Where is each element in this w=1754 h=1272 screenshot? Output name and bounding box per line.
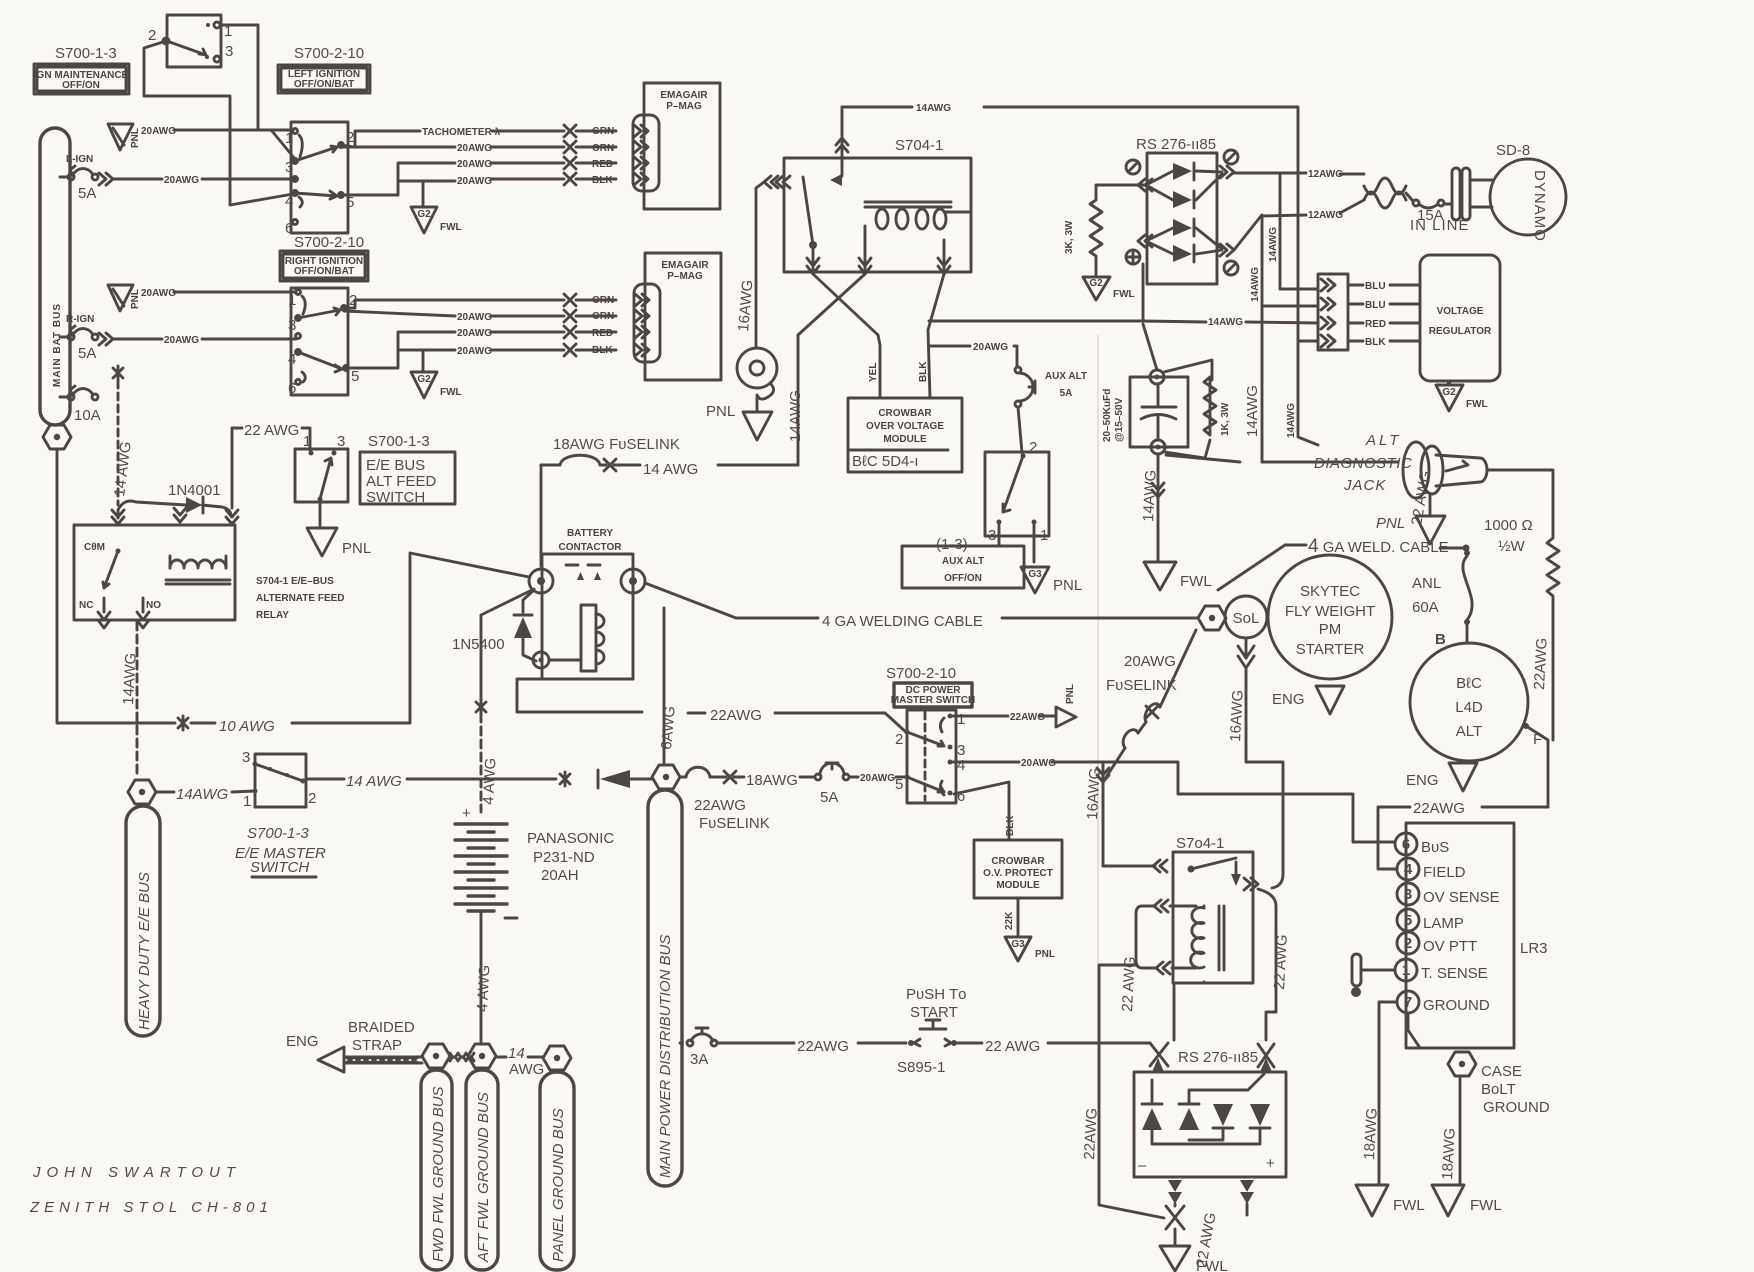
svg-text:ENG: ENG <box>1272 691 1305 708</box>
svg-text:S700-1-3: S700-1-3 <box>55 45 117 62</box>
svg-text:BℓC: BℓC <box>1456 675 1482 692</box>
svg-text:PNL: PNL <box>130 128 141 148</box>
svg-text:18AWG: 18AWG <box>1439 1127 1459 1180</box>
svg-text:3: 3 <box>225 43 233 60</box>
svg-text:4: 4 <box>957 757 965 774</box>
svg-text:BLK: BLK <box>918 361 929 382</box>
svg-text:S700-2-10: S700-2-10 <box>886 665 956 682</box>
svg-text:20AWG: 20AWG <box>457 176 492 187</box>
svg-text:4: 4 <box>285 193 293 210</box>
svg-text:OVER VOLTAGE: OVER VOLTAGE <box>866 421 944 432</box>
svg-text:20AWG: 20AWG <box>141 126 176 137</box>
svg-text:SWITCH: SWITCH <box>250 859 309 876</box>
svg-text:14AWG: 14AWG <box>1250 267 1261 302</box>
svg-text:FυSELINK: FυSELINK <box>699 815 770 832</box>
svg-text:14AWG: 14AWG <box>916 103 951 114</box>
svg-text:PNL: PNL <box>1053 577 1082 594</box>
svg-text:5A: 5A <box>78 185 96 202</box>
svg-text:½W: ½W <box>1498 538 1526 555</box>
svg-text:FWL: FWL <box>1470 1197 1502 1214</box>
svg-text:22AWG: 22AWG <box>1081 1107 1101 1160</box>
svg-text:PNL: PNL <box>1065 684 1076 704</box>
svg-text:CASE: CASE <box>1481 1063 1522 1080</box>
svg-text:MASTER SWITCH: MASTER SWITCH <box>891 695 975 706</box>
svg-text:ZENITH STOL CH-801: ZENITH STOL CH-801 <box>29 1199 273 1216</box>
svg-text:ALTERNATE FEED: ALTERNATE FEED <box>256 593 345 604</box>
svg-text:10A: 10A <box>74 407 101 424</box>
svg-text:S7ο4-1: S7ο4-1 <box>1176 835 1224 852</box>
svg-text:FWL: FWL <box>440 387 462 398</box>
svg-text:AFT FWL GROUND BUS: AFT FWL GROUND BUS <box>475 1092 492 1263</box>
svg-text:ANL: ANL <box>1412 575 1441 592</box>
svg-text:CROWBAR: CROWBAR <box>991 856 1045 867</box>
svg-text:+: + <box>462 805 471 822</box>
svg-text:22AWG: 22AWG <box>797 1038 849 1055</box>
svg-text:14AWG: 14AWG <box>1208 317 1243 328</box>
svg-text:FLY WEIGHT: FLY WEIGHT <box>1285 603 1375 620</box>
svg-text:14: 14 <box>508 1045 525 1062</box>
svg-text:OFF/ON/BAT: OFF/ON/BAT <box>294 266 354 277</box>
svg-text:BRAIDED: BRAIDED <box>348 1019 415 1036</box>
svg-text:PANEL GROUND BUS: PANEL GROUND BUS <box>550 1108 567 1262</box>
svg-text:1: 1 <box>285 130 293 147</box>
svg-text:–: – <box>1138 1157 1147 1174</box>
svg-text:4 GA WELD. CABLE: 4 GA WELD. CABLE <box>1308 536 1449 557</box>
svg-text:3K, 3W: 3K, 3W <box>1064 220 1075 254</box>
svg-text:1: 1 <box>303 433 311 450</box>
svg-text:20AWG: 20AWG <box>457 346 492 357</box>
svg-text:ORN: ORN <box>592 311 614 322</box>
svg-text:20AWG: 20AWG <box>1124 653 1176 670</box>
svg-text:CONTACTOR: CONTACTOR <box>559 542 623 553</box>
svg-text:S700-1-3: S700-1-3 <box>368 433 430 450</box>
svg-text:5: 5 <box>346 194 354 211</box>
svg-text:BLK: BLK <box>1365 337 1386 348</box>
svg-text:GRN: GRN <box>592 126 614 137</box>
svg-text:22AWG: 22AWG <box>710 707 762 724</box>
svg-text:R-IGN: R-IGN <box>66 314 94 325</box>
svg-text:3: 3 <box>288 317 296 334</box>
svg-text:S895-1: S895-1 <box>897 1059 945 1076</box>
svg-text:EMAGAIR: EMAGAIR <box>660 90 708 101</box>
svg-text:3: 3 <box>285 159 293 176</box>
svg-text:20AWG: 20AWG <box>457 159 492 170</box>
svg-text:6: 6 <box>1402 836 1410 853</box>
svg-text:20AWG: 20AWG <box>1021 758 1056 769</box>
svg-text:4: 4 <box>288 351 296 368</box>
svg-text:20AWG: 20AWG <box>457 143 492 154</box>
svg-text:22AWG: 22AWG <box>694 797 746 814</box>
svg-text:1: 1 <box>1402 962 1410 979</box>
svg-text:O.V. PROTECT: O.V. PROTECT <box>983 868 1053 879</box>
svg-text:SKYTEC: SKYTEC <box>1300 583 1360 600</box>
svg-text:RED: RED <box>592 159 613 170</box>
svg-text:LAMP: LAMP <box>1423 915 1464 932</box>
svg-text:22 AWG: 22 AWG <box>1271 934 1291 990</box>
svg-text:BLU: BLU <box>1365 281 1386 292</box>
svg-text:18AWG: 18AWG <box>1361 1107 1381 1160</box>
svg-text:FυSELINK: FυSELINK <box>1106 677 1177 694</box>
svg-text:HEAVY DUTY E/E BUS: HEAVY DUTY E/E BUS <box>136 872 153 1030</box>
svg-text:DYNAMO: DYNAMO <box>1531 170 1548 242</box>
svg-text:NC: NC <box>79 600 93 611</box>
svg-text:20AWG: 20AWG <box>141 288 176 299</box>
svg-text:GROUND: GROUND <box>1423 997 1490 1014</box>
svg-text:2: 2 <box>1404 935 1412 952</box>
svg-text:14 AWG: 14 AWG <box>346 773 402 790</box>
svg-text:PM: PM <box>1319 621 1342 638</box>
svg-text:AUX ALT: AUX ALT <box>1045 371 1087 382</box>
svg-text:2: 2 <box>148 27 156 44</box>
svg-text:BυS: BυS <box>1421 839 1449 856</box>
svg-text:SD-8: SD-8 <box>1496 142 1530 159</box>
svg-text:TACHOMETER λ: TACHOMETER λ <box>422 127 501 138</box>
svg-text:SοL: SοL <box>1233 610 1260 627</box>
svg-text:PNL: PNL <box>130 289 141 309</box>
svg-text:20AWG: 20AWG <box>164 335 199 346</box>
svg-text:LR3: LR3 <box>1520 940 1548 957</box>
svg-text:L-IGN: L-IGN <box>66 154 93 165</box>
svg-text:PυSH Tο: PυSH Tο <box>906 986 966 1003</box>
svg-text:5: 5 <box>351 368 359 385</box>
svg-text:PNL: PNL <box>1035 949 1055 960</box>
svg-text:YEL: YEL <box>868 363 879 382</box>
svg-text:FWL: FWL <box>1196 1258 1228 1272</box>
svg-text:22 AWG: 22 AWG <box>244 422 299 439</box>
svg-text:BοLT: BοLT <box>1481 1081 1516 1098</box>
svg-text:MAIN BAT BUS: MAIN BAT BUS <box>52 303 63 387</box>
svg-text:FIELD: FIELD <box>1423 864 1466 881</box>
svg-text:P231-ND: P231-ND <box>533 849 595 866</box>
svg-text:FWL: FWL <box>1113 289 1135 300</box>
svg-text:1N4001: 1N4001 <box>168 482 221 499</box>
svg-text:1000 Ω: 1000 Ω <box>1484 517 1533 534</box>
svg-text:+: + <box>1266 1155 1275 1172</box>
svg-text:22AWG: 22AWG <box>1010 712 1045 723</box>
svg-text:7: 7 <box>1404 994 1412 1011</box>
svg-text:FWD FWL GROUND BUS: FWD FWL GROUND BUS <box>430 1086 447 1262</box>
svg-text:L4D: L4D <box>1455 699 1483 716</box>
svg-text:OV PTT: OV PTT <box>1423 938 1477 955</box>
svg-text:ALT FEED: ALT FEED <box>366 473 436 490</box>
svg-text:FWL: FWL <box>440 222 462 233</box>
svg-text:S704-1 E/E–BUS: S704-1 E/E–BUS <box>256 576 334 587</box>
svg-text:G3: G3 <box>1011 939 1025 950</box>
svg-text:22AWG: 22AWG <box>1413 800 1465 817</box>
svg-text:14AWG: 14AWG <box>1268 227 1279 262</box>
svg-text:3: 3 <box>988 527 996 544</box>
svg-text:G2: G2 <box>417 209 431 220</box>
svg-text:RELAY: RELAY <box>256 610 289 621</box>
svg-text:T. SENSE: T. SENSE <box>1421 965 1488 982</box>
svg-text:AWG: AWG <box>509 1061 544 1078</box>
svg-text:AUX ALT: AUX ALT <box>942 556 984 567</box>
svg-text:G2: G2 <box>417 374 431 385</box>
svg-text:1: 1 <box>288 292 296 309</box>
svg-text:G2: G2 <box>1442 387 1456 398</box>
svg-text:14AWG: 14AWG <box>787 390 804 442</box>
svg-text:20AWG: 20AWG <box>457 312 492 323</box>
svg-text:STRAP: STRAP <box>352 1037 402 1054</box>
svg-text:BATTERY: BATTERY <box>567 528 613 539</box>
svg-text:60A: 60A <box>1412 599 1439 616</box>
svg-text:JOHN SWARTOUT: JOHN SWARTOUT <box>32 1164 241 1181</box>
svg-text:20AWG: 20AWG <box>860 773 895 784</box>
svg-text:RS 276-ıı85: RS 276-ıı85 <box>1136 136 1216 153</box>
svg-text:ALT: ALT <box>1456 723 1482 740</box>
svg-text:6: 6 <box>288 380 296 397</box>
svg-text:1: 1 <box>957 711 965 728</box>
svg-text:6: 6 <box>285 220 293 237</box>
svg-text:20–50KuFd: 20–50KuFd <box>1102 389 1113 442</box>
svg-text:14 AWG: 14 AWG <box>643 461 698 478</box>
svg-text:4: 4 <box>1404 861 1413 878</box>
svg-text:STARTER: STARTER <box>1296 641 1365 658</box>
svg-text:RED: RED <box>1365 319 1386 330</box>
svg-text:1N5400: 1N5400 <box>452 636 505 653</box>
svg-text:RED: RED <box>592 328 613 339</box>
svg-text:2: 2 <box>1029 439 1037 456</box>
svg-text:12AWG: 12AWG <box>1308 210 1343 221</box>
svg-text:2: 2 <box>308 790 316 807</box>
svg-text:5: 5 <box>1404 912 1412 929</box>
svg-text:14AWG: 14AWG <box>1286 403 1297 438</box>
svg-text:20AWG: 20AWG <box>164 175 199 186</box>
svg-text:ORN: ORN <box>592 143 614 154</box>
svg-text:BLU: BLU <box>1365 300 1386 311</box>
svg-text:GROUND: GROUND <box>1483 1099 1550 1116</box>
svg-text:B: B <box>1435 631 1446 648</box>
svg-text:OFF/ON: OFF/ON <box>62 80 100 91</box>
svg-text:ENG: ENG <box>1406 772 1439 789</box>
svg-text:E/E BUS: E/E BUS <box>366 457 425 474</box>
svg-text:14AWG: 14AWG <box>1140 469 1160 522</box>
svg-text:SWITCH: SWITCH <box>366 489 425 506</box>
svg-text:NO: NO <box>146 600 161 611</box>
svg-text:ALT: ALT <box>1365 432 1401 449</box>
svg-text:OFF/ON/BAT: OFF/ON/BAT <box>294 79 354 90</box>
svg-text:REGULATOR: REGULATOR <box>1429 326 1492 337</box>
svg-text:2: 2 <box>346 129 354 146</box>
svg-text:5: 5 <box>895 776 903 793</box>
svg-text:14AWG: 14AWG <box>176 786 229 803</box>
svg-text:20AH: 20AH <box>541 867 579 884</box>
svg-text:P–MAG: P–MAG <box>666 101 702 112</box>
svg-text:BLK: BLK <box>592 175 613 186</box>
svg-text:20AWG: 20AWG <box>973 342 1008 353</box>
svg-text:4 AWG: 4 AWG <box>480 757 499 805</box>
svg-text:EMAGAIR: EMAGAIR <box>661 260 709 271</box>
svg-text:5A: 5A <box>1060 388 1073 399</box>
svg-text:1K, 3W: 1K, 3W <box>1220 402 1231 436</box>
svg-text:PANASONIC: PANASONIC <box>527 830 614 847</box>
svg-text:FWL: FWL <box>1393 1197 1425 1214</box>
svg-text:S704-1: S704-1 <box>895 137 943 154</box>
svg-text:5A: 5A <box>78 345 96 362</box>
svg-text:G3: G3 <box>1028 569 1042 580</box>
svg-text:FWL: FWL <box>1180 573 1212 590</box>
svg-text:3: 3 <box>1404 886 1412 903</box>
svg-text:CθM: CθM <box>84 542 105 553</box>
svg-text:ORN: ORN <box>592 295 614 306</box>
svg-text:3: 3 <box>337 433 345 450</box>
svg-text:FWL: FWL <box>1466 399 1488 410</box>
svg-text:PNL: PNL <box>342 540 371 557</box>
svg-text:14AWG: 14AWG <box>1244 385 1261 437</box>
svg-text:G2: G2 <box>1089 278 1103 289</box>
svg-text:PNL: PNL <box>706 403 735 420</box>
svg-text:START: START <box>910 1004 958 1021</box>
svg-text:18AWG: 18AWG <box>746 772 798 789</box>
svg-text:MODULE: MODULE <box>883 434 927 445</box>
svg-text:18AWG FυSELINK: 18AWG FυSELINK <box>553 436 680 453</box>
svg-text:OV SENSE: OV SENSE <box>1423 889 1500 906</box>
svg-text:S700-1-3: S700-1-3 <box>247 825 309 842</box>
svg-text:S700-2-10: S700-2-10 <box>294 234 364 251</box>
svg-text:BLK: BLK <box>592 345 613 356</box>
svg-text:2: 2 <box>895 731 903 748</box>
svg-text:16AWG: 16AWG <box>1227 689 1247 742</box>
svg-text:JACK: JACK <box>1343 477 1386 494</box>
svg-text:VOLTAGE: VOLTAGE <box>1437 306 1484 317</box>
svg-text:4 GA WELDING CABLE: 4 GA WELDING CABLE <box>822 613 983 630</box>
svg-text:DIAGNOSTIC: DIAGNOSTIC <box>1314 455 1412 472</box>
svg-text:MAIN POWER DISTRIBUTION BUS: MAIN POWER DISTRIBUTION BUS <box>657 935 674 1178</box>
svg-text:PNL: PNL <box>1376 515 1405 532</box>
svg-text:ENG: ENG <box>286 1033 319 1050</box>
svg-text:12AWG: 12AWG <box>1308 169 1343 180</box>
svg-text:@15–50V: @15–50V <box>1114 397 1125 442</box>
svg-text:22K: 22K <box>1004 911 1015 930</box>
svg-text:CROWBAR: CROWBAR <box>878 408 932 419</box>
svg-text:3A: 3A <box>690 1051 708 1068</box>
svg-text:3: 3 <box>242 749 250 766</box>
svg-text:1: 1 <box>1040 527 1048 544</box>
svg-text:5A: 5A <box>820 789 838 806</box>
svg-text:1: 1 <box>243 793 251 810</box>
svg-text:10 AWG: 10 AWG <box>219 718 275 735</box>
svg-text:P–MAG: P–MAG <box>667 271 703 282</box>
svg-text:4 AWG: 4 AWG <box>474 964 493 1012</box>
svg-text:RS 276-ıı85: RS 276-ıı85 <box>1178 1049 1258 1066</box>
svg-text:22AWG: 22AWG <box>1531 637 1551 690</box>
svg-text:14AWG: 14AWG <box>120 652 140 705</box>
svg-text:MODULE: MODULE <box>996 880 1040 891</box>
svg-text:OFF/ON: OFF/ON <box>944 573 982 584</box>
svg-text:BLK: BLK <box>1005 815 1016 836</box>
svg-text:S700-2-10: S700-2-10 <box>294 45 364 62</box>
svg-text:16AWG: 16AWG <box>1084 767 1104 820</box>
svg-text:IN LINE: IN LINE <box>1410 217 1470 234</box>
svg-text:(1-3): (1-3) <box>936 536 968 553</box>
svg-text:20AWG: 20AWG <box>457 328 492 339</box>
svg-text:BℓC 5D4-ı: BℓC 5D4-ı <box>852 453 919 470</box>
svg-text:22 AWG: 22 AWG <box>985 1038 1040 1055</box>
